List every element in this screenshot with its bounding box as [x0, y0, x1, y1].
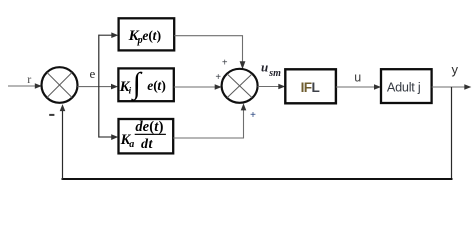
- svg-text:dt: dt: [141, 137, 154, 152]
- svg-text:): ): [159, 119, 164, 135]
- wire: branch vertical line: [98, 35, 100, 138]
- wire: feedback bottom run: [62, 178, 453, 180]
- summing junction S1: [42, 67, 78, 103]
- wire: Ka output to S2 bottom: [173, 109, 243, 138]
- block IFL: [285, 69, 336, 103]
- wire: S1 output to Ki box (through branch point): [78, 86, 115, 88]
- block Ki integral e(t): [118, 68, 173, 101]
- wire: top branch into Kp box: [99, 34, 115, 36]
- wire: feedback tap down from output: [451, 87, 453, 179]
- svg-text:+: +: [215, 72, 221, 83]
- svg-text:a: a: [129, 139, 134, 150]
- summing junction S2: [222, 69, 258, 103]
- wire: Adult j output to y: [432, 86, 468, 88]
- svg-text:u: u: [261, 60, 268, 75]
- svg-text:+: +: [222, 57, 228, 68]
- svg-text:): ): [157, 28, 162, 43]
- svg-text:y: y: [452, 62, 459, 77]
- svg-text:sm: sm: [268, 68, 281, 79]
- block Kp e(t): [119, 18, 175, 50]
- wire: feedback up into S1: [62, 108, 64, 180]
- wire: Ki output to S2 left: [174, 86, 218, 88]
- wire: bottom branch into Ka box: [99, 136, 115, 138]
- svg-text:Adult j: Adult j: [387, 80, 421, 94]
- wire: input r into summing junction 1: [8, 85, 38, 87]
- svg-text:u: u: [354, 71, 361, 85]
- svg-text:e: e: [90, 66, 96, 81]
- wire: Kp output to S2 top: [174, 36, 242, 63]
- svg-text:∫: ∫: [131, 67, 143, 102]
- minus sign (feedback): [49, 114, 54, 116]
- wire: S2 output to IFL: [258, 86, 282, 88]
- svg-text:r: r: [27, 72, 31, 86]
- svg-text:IFL: IFL: [301, 80, 320, 95]
- block Ka de(t)/dt: [119, 119, 174, 153]
- block Adult j: [381, 69, 432, 103]
- svg-text:+: +: [250, 110, 256, 121]
- wire: IFL to Adult j: [336, 86, 378, 88]
- svg-text:de: de: [135, 119, 149, 135]
- svg-text:): ): [161, 78, 166, 93]
